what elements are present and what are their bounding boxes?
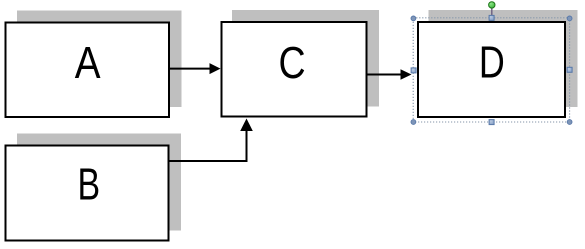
svg-text:C: C [278, 37, 305, 88]
svg-text:A: A [75, 37, 101, 88]
svg-text:D: D [479, 37, 505, 88]
svg-text:B: B [78, 159, 101, 210]
